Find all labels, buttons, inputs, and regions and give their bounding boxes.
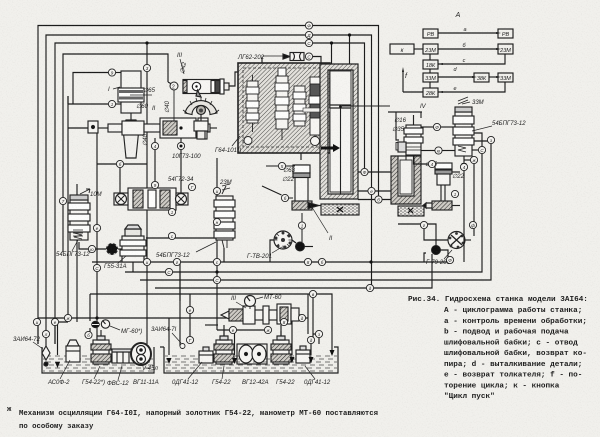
node k box	[390, 44, 414, 54]
valve 23M	[214, 196, 235, 240]
wire g55 right to 23M	[146, 237, 216, 239]
check valve left of 54G72-34	[116, 194, 127, 205]
wire x120 down to check valve	[119, 168, 121, 194]
pump G54-22 a	[214, 331, 234, 364]
valve spool inside block 1	[246, 75, 259, 132]
pusher III assembly	[221, 304, 299, 324]
wire block feed x321	[331, 43, 333, 64]
spring zigzag 54BPG	[74, 233, 82, 239]
wire left vertical x97	[96, 122, 98, 333]
motor VG11-11A	[131, 343, 151, 365]
flow arrow 33M down	[462, 163, 467, 169]
footnote	[7, 406, 378, 431]
gauge MG-60	[92, 320, 110, 328]
wire bottom long y318	[38, 318, 308, 344]
oscillation cylinder	[183, 79, 229, 97]
wire mid vertical x147	[146, 43, 148, 344]
oscillation block G64-101 housing	[238, 63, 330, 153]
wire box to spindle	[98, 127, 108, 129]
extra band nodes	[85, 256, 454, 343]
23M spring arrow top	[222, 184, 230, 194]
wire pusher feed left	[205, 324, 218, 326]
wire x181 node5 down	[180, 150, 182, 194]
wire y294 long	[90, 293, 309, 295]
block leader line	[232, 136, 240, 146]
node circles	[33, 22, 494, 344]
wire copier port rows	[358, 171, 391, 173]
wire pusher to right	[278, 314, 302, 316]
gauge MT-60	[245, 296, 256, 310]
wire node9 row	[73, 73, 108, 105]
gauge black dot G55	[107, 244, 118, 255]
block inner node circle right	[311, 137, 320, 146]
wires IV-33M cluster	[403, 127, 478, 262]
node 2 circle	[170, 82, 178, 90]
wire x155 node4 column	[154, 138, 156, 142]
wire block feed x349	[349, 35, 351, 64]
right tank	[160, 347, 338, 373]
caption text	[408, 296, 588, 401]
wire pump rods right tank	[223, 325, 225, 336]
cam follower rod	[194, 115, 208, 139]
wire tank drop x234	[234, 330, 236, 358]
wire node2 down	[173, 90, 175, 121]
left edge check valve 3AI64-72	[42, 346, 50, 366]
copier pad	[398, 206, 424, 216]
box 33M left	[423, 73, 438, 82]
wire left vertical x77	[76, 184, 78, 322]
tank flow arrows	[55, 350, 335, 368]
wire right loop bottom 3	[155, 254, 432, 288]
wire y334 row right	[313, 334, 319, 344]
filter ASOF-2	[66, 340, 80, 362]
box 38K	[474, 73, 489, 82]
wire g55 bottom down	[132, 262, 134, 272]
wire right loop bottom 1	[125, 133, 482, 272]
23M arrows bottom	[222, 240, 227, 248]
wire pusher drop x308	[307, 294, 309, 334]
wire y301 horizontal	[179, 262, 181, 301]
wire bottom long y322	[55, 322, 68, 344]
wire tank drop x57	[57, 322, 59, 362]
box 33M right	[498, 73, 513, 82]
check valve right of 54G72-34	[176, 194, 187, 205]
cyclogram A	[390, 29, 513, 97]
wire loop 3	[55, 43, 365, 344]
cylinder d55	[435, 163, 452, 201]
grinding head slide cylinder column	[320, 64, 358, 199]
pump G54-22 b	[271, 331, 291, 364]
timer dial G-TV-201	[274, 231, 292, 249]
container ODG41-12 left	[199, 347, 213, 363]
box 18K	[423, 60, 438, 69]
left tank	[42, 347, 154, 373]
wire piston to IV	[342, 105, 390, 107]
wire d63 foot right arrow line	[319, 205, 326, 207]
33M spring arrow	[458, 97, 470, 104]
wire osc to valve row	[229, 57, 262, 87]
cylinder d63 ejector	[292, 165, 319, 210]
ejector nozzle	[423, 201, 460, 210]
cylinder I grinding head	[118, 71, 144, 158]
wire loop 2	[46, 35, 372, 352]
spindle assembly II	[108, 118, 217, 139]
wire right loop bottom 2	[140, 141, 491, 280]
wire dial connections	[270, 240, 274, 262]
small box component left	[88, 121, 98, 133]
wire tank drop x292	[291, 315, 293, 357]
wire 23M bottom to dial	[223, 248, 225, 262]
IV handle frame	[388, 112, 422, 152]
motor VG12-42A	[237, 344, 267, 364]
wire 54bpg to g55 gauge	[79, 242, 107, 249]
valve 33M right	[453, 107, 474, 156]
copier U-block	[391, 150, 421, 204]
valve LG62-202	[283, 53, 304, 61]
nodes near d63 cylinder	[278, 162, 305, 229]
black ball valve	[296, 242, 305, 251]
box 23M right	[498, 44, 513, 54]
wire y310 pusher row	[189, 294, 191, 340]
valve spool inside block 4	[309, 77, 324, 142]
black ball valve right	[432, 246, 441, 255]
pump G54-22 star	[91, 330, 111, 364]
wire loop 4 to valve	[63, 54, 168, 252]
wire tank drop x169	[168, 318, 170, 358]
box PB right	[498, 29, 513, 38]
box B component	[396, 143, 403, 151]
container ODG41-12 right	[296, 346, 310, 363]
wire d63 cyl top	[300, 153, 302, 160]
wire x180 drop	[179, 272, 181, 346]
filter FVS-12	[112, 349, 134, 363]
wire node1 row	[68, 103, 108, 105]
wire tank drop x311	[310, 343, 312, 357]
oscillation cam sector	[183, 97, 219, 115]
10M arrow	[80, 189, 90, 194]
wire valve to block	[313, 57, 321, 65]
wire tank drop x332	[317, 294, 332, 350]
cyclogram arrows	[414, 48, 423, 50]
valve 54G72-34	[114, 188, 188, 210]
wire pusher drop x313	[312, 294, 314, 338]
box 28K	[423, 88, 438, 97]
wire x46 into tank	[45, 352, 47, 360]
paper noise overlay	[0, 0, 1, 1]
valve spool inside block 3	[293, 86, 306, 126]
valve 54BPG73-12 left	[68, 195, 90, 240]
wire outer loop 1	[38, 26, 379, 345]
box PB left	[423, 29, 438, 38]
wire tank drops left	[96, 333, 98, 340]
valve G55-31A	[120, 225, 146, 262]
box 23M left	[423, 44, 438, 54]
slide table pad	[321, 204, 359, 215]
valve IV	[404, 115, 423, 155]
wire mid vertical x217	[216, 158, 218, 330]
wire b-node row y164	[97, 163, 147, 165]
feed arrow into slide port	[321, 144, 340, 152]
timer dial G-79-201 right	[448, 232, 465, 249]
valve spool inside block 2	[275, 68, 289, 140]
wire y262 horizontal	[92, 261, 448, 263]
block inner node circle left	[244, 137, 252, 145]
wire x90 drop	[89, 294, 91, 321]
wire left long vertical x68	[67, 96, 69, 318]
wires dial2	[398, 164, 474, 262]
wire y330 row	[217, 329, 268, 331]
